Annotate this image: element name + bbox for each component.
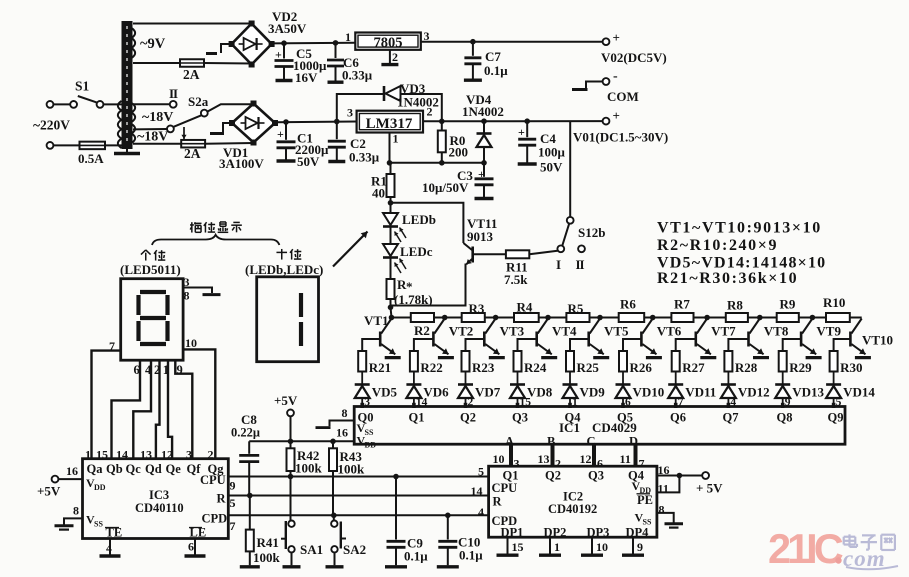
node junction VT3 base node: [493, 315, 499, 321]
node junction C5: [281, 40, 287, 46]
wire base of VT4: [518, 339, 537, 351]
wire display pin2 to IC3 pin13: [156, 360, 160, 459]
svg-text:16: 16: [658, 463, 670, 477]
svg-text:14: 14: [116, 448, 128, 462]
svg-text:13: 13: [538, 452, 550, 466]
node junction VT1 base node: [389, 315, 395, 321]
svg-text:VT3: VT3: [500, 324, 525, 339]
svg-text:10μ/50V: 10μ/50V: [422, 180, 469, 195]
switch S2a: [167, 125, 174, 132]
svg-text:R7: R7: [674, 297, 690, 312]
wire IC2 pin16 to +5V: [657, 475, 702, 477]
svg-text:DP1: DP1: [501, 526, 524, 540]
svg-text:IC3: IC3: [149, 488, 169, 502]
svg-text:COM: COM: [607, 89, 639, 104]
svg-text:0.5A: 0.5A: [78, 151, 104, 166]
svg-text:1N4002: 1N4002: [462, 104, 504, 119]
node +5V terminal for IC3 pin16: [52, 476, 59, 483]
svg-text:VT6: VT6: [657, 324, 682, 339]
wire tap II to contact: [133, 103, 170, 105]
svg-text:15: 15: [96, 448, 108, 462]
svg-text:VT9: VT9: [816, 324, 841, 339]
wire R26 to VD10: [622, 372, 624, 385]
watermark dian-zi-wang: [848, 534, 850, 547]
svg-text:R4: R4: [517, 300, 533, 315]
wire R23 to VD7: [465, 372, 467, 385]
label I with arrow: [183, 127, 185, 139]
node junction C9: [393, 474, 399, 480]
resistor R22: [410, 351, 418, 372]
node junction R43/CPD: [331, 513, 337, 519]
svg-text:DP3: DP3: [587, 526, 610, 540]
node junction R42/CPU: [288, 474, 294, 480]
svg-text:VT1: VT1: [364, 313, 389, 328]
resistor R26: [619, 351, 627, 372]
svg-text:CPU: CPU: [492, 481, 518, 495]
transistor VT11 9013: [471, 247, 474, 263]
svg-text:Q6: Q6: [670, 411, 686, 425]
wire R24 to VD8: [517, 372, 519, 385]
wire base of VT10: [834, 339, 851, 351]
wire R25 to VD9: [569, 372, 571, 385]
svg-text:7805: 7805: [374, 35, 403, 51]
svg-text:9013: 9013: [467, 229, 494, 244]
svg-text:5: 5: [230, 496, 236, 510]
op-amp IC3 CD40110 counter/driver: [83, 459, 229, 539]
wire base of VT7: [676, 339, 696, 351]
wire R21 to VD5: [361, 372, 363, 385]
capacitor C3 10u/50V: [483, 163, 485, 177]
svg-text:40: 40: [372, 186, 385, 201]
svg-text:100k: 100k: [295, 461, 323, 476]
resistor R30: [830, 351, 838, 372]
svg-text:4: 4: [106, 541, 112, 555]
svg-text:8: 8: [659, 503, 665, 517]
capacitor C5 1000u/16V: [283, 43, 285, 58]
diode VD4 1N4002: [483, 121, 485, 132]
fuse 0.5A: [53, 144, 79, 146]
svg-text:C7: C7: [485, 49, 501, 64]
resistor R3: [462, 313, 485, 322]
node junction C4: [524, 118, 530, 124]
ground IC3 pin4: [109, 539, 111, 555]
node junction C7: [470, 39, 476, 45]
svg-text:1: 1: [554, 540, 560, 554]
svg-text:10: 10: [493, 452, 505, 466]
wire base of VT1: [362, 339, 380, 351]
label ge-wei (units digit): [141, 250, 146, 255]
transistor VT1: [379, 332, 382, 347]
digit 1 segments: [299, 293, 303, 317]
regulator U LM317: [357, 111, 423, 133]
svg-text:(LEDb,LEDc): (LEDb,LEDc): [245, 262, 323, 277]
transformer T core: [122, 21, 133, 149]
svg-text:VD9: VD9: [580, 385, 606, 400]
wire VD11 to IC1 pin: [675, 398, 677, 407]
svg-text:VD10: VD10: [633, 385, 665, 400]
svg-text:Q7: Q7: [723, 411, 739, 425]
svg-text:R5: R5: [568, 301, 584, 316]
svg-text:R: R: [217, 492, 227, 506]
svg-text:SS: SS: [94, 520, 103, 529]
switch SA1: [290, 477, 292, 521]
wire VD12 to IC1 pin: [727, 398, 729, 407]
svg-text:100k: 100k: [338, 462, 366, 477]
7805 pin2 ground stub: [389, 50, 391, 63]
svg-text:Q9: Q9: [828, 411, 844, 425]
node junction C2 / VD3 loop: [334, 119, 340, 125]
ground IC2 pin8: [657, 513, 674, 523]
wire tap I to contact: [133, 128, 167, 130]
svg-text:R27: R27: [682, 360, 705, 375]
wire VD8 to IC1 pin: [517, 398, 519, 407]
svg-text:12: 12: [580, 452, 592, 466]
diode VD3 1N4002 protection loop: [337, 94, 384, 122]
svg-text:LEDc: LEDc: [400, 244, 433, 259]
svg-text:VT2: VT2: [449, 324, 474, 339]
wire base of VT11: [474, 253, 506, 255]
wire VD10 to IC1 pin: [622, 398, 624, 407]
transistor VT4: [535, 332, 538, 347]
svg-text:0.22μ: 0.22μ: [231, 426, 260, 440]
transistor VT10: [849, 332, 852, 347]
node junction VT6 base node: [650, 315, 656, 321]
svg-text:21IC: 21IC: [768, 525, 843, 572]
svg-text:50V: 50V: [540, 160, 563, 175]
transistor VT3: [483, 332, 486, 347]
transistor VT6: [640, 332, 643, 347]
svg-text:S2a: S2a: [188, 94, 209, 109]
wire IC1 to IC2 pin bars: [509, 444, 513, 466]
svg-text:Q2: Q2: [460, 411, 476, 425]
wire ladder bus segments: [392, 317, 411, 319]
wire VD14 to IC1 pin: [833, 398, 835, 407]
svg-text:VT7: VT7: [711, 324, 736, 339]
node V01 terminal: [603, 118, 610, 125]
svg-text:Qf: Qf: [187, 462, 202, 476]
IC2 DP pins to ground: [507, 537, 509, 554]
svg-text:0.1μ: 0.1μ: [484, 63, 508, 78]
diode VD5: [355, 383, 370, 386]
node junction VT2 base node: [442, 315, 448, 321]
svg-text:PE: PE: [637, 493, 653, 507]
svg-text:CD40110: CD40110: [135, 501, 184, 515]
wire input to S1: [53, 103, 70, 105]
wire display pin9 to IC3 pin3: [175, 360, 192, 459]
svg-text:DP2: DP2: [544, 526, 567, 540]
svg-text:1: 1: [345, 30, 351, 44]
label shi-wei (tens digit): [276, 251, 287, 253]
svg-text:+: +: [478, 167, 485, 181]
capacitor C1 2200u/50V: [285, 122, 287, 140]
wire +5V rail to IC1 pin16: [249, 440, 354, 442]
svg-text:2: 2: [208, 448, 214, 462]
node junction R41: [247, 493, 253, 499]
svg-text:15: 15: [512, 540, 524, 554]
resistor R10: [826, 313, 850, 322]
wire VD7 to IC1 pin: [465, 398, 467, 407]
wire CPD line (IC3 pin7 to IC2 pin4): [228, 514, 488, 516]
node junction VT5 base node: [597, 315, 603, 321]
transistor VT7: [694, 332, 697, 347]
svg-text:II: II: [576, 257, 585, 272]
svg-text:Qd: Qd: [145, 462, 162, 476]
wire R28 to VD12: [727, 372, 729, 385]
svg-text:9: 9: [637, 540, 643, 554]
diode VD6: [406, 383, 421, 386]
svg-text:2A: 2A: [184, 146, 201, 161]
diode VD12: [721, 383, 736, 386]
svg-text:VT1~VT10:9013×10: VT1~VT10:9013×10: [657, 220, 822, 237]
wire collector of VT11: [391, 203, 464, 243]
wire V01 rail: [423, 120, 603, 122]
wire R22 to VD6: [413, 372, 415, 385]
svg-text:DD: DD: [365, 441, 377, 450]
svg-text:R2: R2: [414, 323, 430, 338]
node junction LED chain top: [388, 200, 394, 206]
svg-text:CPD: CPD: [202, 512, 228, 526]
svg-text:100μ: 100μ: [538, 145, 566, 160]
svg-text:II: II: [169, 86, 178, 101]
svg-text:+ 5V: + 5V: [696, 481, 723, 496]
wire base of VT8: [728, 339, 748, 351]
svg-text:DP4: DP4: [626, 526, 650, 540]
svg-text:SA2: SA2: [343, 542, 366, 557]
wire R29 to VD13: [782, 372, 784, 385]
svg-text:+: +: [613, 108, 620, 123]
svg-text:VD14: VD14: [843, 385, 875, 400]
svg-text:S1: S1: [75, 79, 90, 94]
svg-text:VD11: VD11: [685, 385, 716, 400]
resistor R25: [566, 351, 574, 372]
svg-text:3A100V: 3A100V: [219, 156, 264, 171]
fuse 2A (lower): [181, 140, 205, 148]
resistor R21: [358, 351, 366, 372]
wire S1 to transformer primary: [103, 103, 121, 105]
svg-text:R21: R21: [369, 360, 391, 375]
svg-text:SA1: SA1: [300, 542, 323, 557]
switch SA2: [333, 515, 335, 520]
capacitor C2 0.33u: [336, 122, 338, 140]
regulator U 7805: [355, 33, 421, 50]
svg-text:~18V: ~18V: [142, 110, 173, 125]
diode VD7: [458, 383, 473, 386]
svg-text:3A50V: 3A50V: [268, 21, 307, 36]
diode VD13: [775, 383, 790, 386]
wire base of VT9: [783, 339, 801, 351]
wire VD9 to IC1 pin: [569, 398, 571, 407]
svg-text:(LED5011): (LED5011): [120, 262, 181, 277]
wire IC2 pin11 to +5V node: [657, 476, 680, 493]
svg-text:R23: R23: [472, 360, 495, 375]
LED LEDb: [390, 203, 392, 213]
switch S1: [70, 101, 77, 108]
wire base of VT3: [466, 339, 485, 351]
capacitor C8 0.22u: [248, 441, 250, 454]
resistor R43 100k: [332, 441, 334, 448]
svg-text:8: 8: [73, 504, 79, 518]
svg-text:6: 6: [188, 540, 194, 554]
svg-text:R26: R26: [630, 360, 653, 375]
svg-text:R29: R29: [789, 360, 812, 375]
node junction VD4: [481, 118, 487, 124]
diode VD11: [668, 383, 683, 386]
resistor R7: [671, 313, 693, 322]
op-amp IC1 CD4029 counter: [354, 407, 845, 445]
node junction C10: [445, 513, 451, 519]
svg-text:VD7: VD7: [475, 385, 501, 400]
wire display pin1 to IC3 pin12: [168, 360, 172, 459]
resistor R11 7.5k: [506, 250, 529, 258]
svg-text:11: 11: [658, 482, 669, 496]
ground IC1 pin8: [330, 421, 355, 427]
svg-text:R8: R8: [727, 298, 743, 313]
transformer secondary ~18V winding II: [132, 103, 136, 113]
svg-text:LEDb: LEDb: [402, 212, 436, 227]
svg-text:R30: R30: [840, 360, 862, 375]
wire VD5 to IC1 pin: [361, 398, 363, 407]
svg-text:R25: R25: [577, 360, 600, 375]
svg-text:R9: R9: [780, 297, 796, 312]
svg-text:R2~R10:240×9: R2~R10:240×9: [657, 237, 778, 254]
svg-text:1N4002: 1N4002: [397, 95, 439, 110]
svg-text:IC1: IC1: [559, 420, 580, 435]
wire 9V top to bridge VD2: [133, 23, 252, 25]
resistor R24: [514, 351, 522, 372]
node junction VT9 base node: [810, 315, 816, 321]
svg-text:Q3: Q3: [512, 411, 528, 425]
svg-text:VD12: VD12: [738, 385, 770, 400]
svg-text:200: 200: [449, 145, 469, 160]
svg-text:2: 2: [427, 105, 433, 119]
svg-text:1: 1: [393, 132, 399, 146]
svg-text:7: 7: [230, 519, 236, 533]
wire ADJ node: [390, 162, 485, 164]
svg-text:9: 9: [230, 479, 236, 493]
svg-text:0.33μ: 0.33μ: [349, 150, 380, 165]
svg-text:Qc: Qc: [126, 462, 142, 476]
svg-text:Q8: Q8: [777, 411, 793, 425]
svg-text:SS: SS: [365, 428, 374, 437]
diode VD9: [563, 383, 578, 386]
wire base of VT6: [623, 339, 641, 351]
node junction C1: [283, 119, 289, 125]
wire emitter of VT11 to ladder: [391, 264, 466, 306]
svg-text:0.1μ: 0.1μ: [459, 548, 483, 563]
svg-text:50V: 50V: [297, 154, 320, 169]
svg-text:R24: R24: [524, 360, 547, 375]
node junction R0: [439, 119, 445, 125]
node ~220V input terminal (bottom): [47, 142, 54, 149]
svg-text:R10: R10: [823, 295, 845, 310]
svg-text:2: 2: [392, 50, 398, 64]
wire S2a pole to bridge VD1: [207, 104, 253, 111]
svg-text:8: 8: [184, 289, 190, 303]
display LED5011 (units digit): [121, 279, 183, 361]
resistor R29: [779, 351, 787, 372]
capacitor C6 0.33u: [335, 43, 337, 58]
svg-text:DD: DD: [94, 483, 106, 492]
node junction LED chain bottom: [388, 305, 394, 311]
node junction C6: [333, 40, 339, 46]
svg-text:2A: 2A: [183, 67, 200, 82]
svg-text:16: 16: [66, 464, 78, 478]
svg-text:V02(DC5V): V02(DC5V): [601, 50, 667, 65]
capacitor C10 0.1u: [447, 515, 449, 539]
node V02 terminal: [603, 38, 610, 45]
bridge rectifier VD1 3A100V: [232, 104, 275, 143]
svg-text:VT4: VT4: [552, 324, 577, 339]
brace under label: [152, 235, 279, 245]
resistor R9: [777, 313, 799, 322]
wire CPU line (IC3 pin9 to IC2 pin5): [228, 476, 488, 478]
wire 7805 output +5V rail: [421, 41, 603, 43]
resistor R4: [514, 313, 539, 322]
svg-text:4: 4: [478, 505, 484, 519]
capacitor C7 0.1u: [472, 42, 474, 56]
wire R line (IC3 pin5 to IC2 pin14): [228, 495, 488, 497]
svg-text:10: 10: [596, 540, 608, 554]
svg-text:VT5: VT5: [604, 324, 629, 339]
diode VD10: [616, 383, 631, 386]
wire VD13 to IC1 pin: [782, 398, 784, 407]
svg-text:Qe: Qe: [166, 462, 182, 476]
resistor R23: [462, 351, 470, 372]
svg-text:+5V: +5V: [37, 484, 61, 499]
svg-text:3: 3: [347, 106, 353, 120]
svg-text:Qa: Qa: [87, 462, 104, 476]
wire display pin6 to IC3 pin15: [112, 360, 141, 459]
capacitor C9 0.1u: [395, 477, 397, 540]
svg-text:16V: 16V: [295, 70, 318, 85]
svg-text:VT10: VT10: [862, 333, 893, 348]
op-amp IC2 CD40192 counter: [489, 466, 657, 537]
resistor R5: [566, 313, 589, 322]
svg-text:10: 10: [185, 336, 197, 350]
resistor R27: [672, 351, 680, 372]
svg-text:CPU: CPU: [200, 473, 226, 487]
svg-text:I: I: [556, 257, 561, 272]
svg-text:R22: R22: [420, 360, 442, 375]
svg-text:Qb: Qb: [106, 462, 123, 476]
wire VD2 output to 7805 pin1: [272, 42, 356, 45]
resistor R6: [619, 313, 645, 322]
svg-text:CD4029: CD4029: [592, 420, 637, 435]
svg-text:8: 8: [342, 406, 348, 420]
LED LEDc: [383, 244, 398, 256]
svg-text:R6: R6: [620, 297, 636, 312]
svg-text:+: +: [277, 127, 284, 141]
resistor R2: [411, 313, 434, 322]
diode VD14: [826, 383, 841, 386]
svg-text:~9V: ~9V: [140, 36, 166, 52]
digit 8 segments: [140, 290, 166, 294]
svg-text:13: 13: [140, 448, 152, 462]
transistor VT8: [747, 332, 750, 347]
svg-text:16: 16: [336, 426, 348, 440]
node contact II of S2a: [170, 101, 177, 108]
svg-text:11: 11: [620, 452, 631, 466]
svg-text:LM317: LM317: [366, 116, 413, 132]
wire base of VT5: [570, 339, 589, 351]
svg-text:R21~R30:36k×10: R21~R30:36k×10: [657, 270, 798, 287]
svg-text:Q2: Q2: [545, 469, 561, 483]
resistor R42 100k: [290, 441, 292, 448]
transistor VT5: [587, 332, 590, 347]
wire VD6 to IC1 pin: [413, 398, 415, 407]
svg-text:R: R: [493, 495, 503, 509]
svg-text:V01(DC1.5~30V): V01(DC1.5~30V): [573, 130, 668, 145]
